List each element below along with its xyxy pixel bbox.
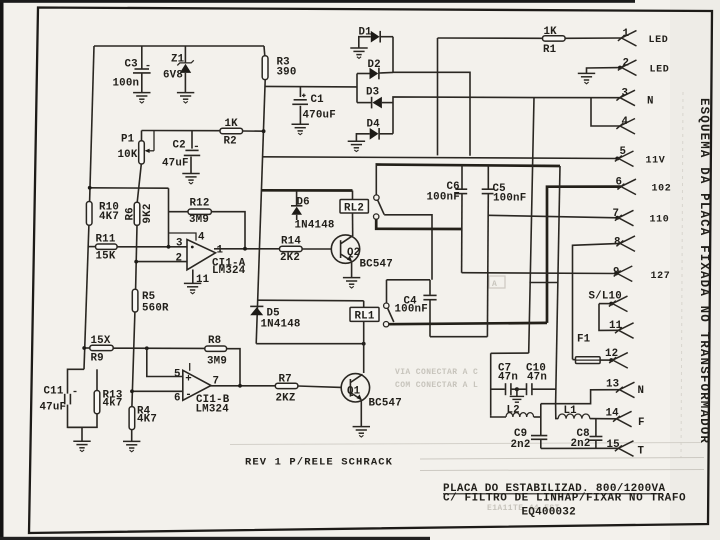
node R2/rail junction [262, 129, 266, 133]
node pin3 junction [167, 245, 171, 249]
svg-text:11: 11 [609, 320, 623, 332]
diode D2 [357, 73, 370, 75]
wire C4 top row [387, 279, 431, 281]
wire R12 left branch [168, 188, 170, 247]
svg-text:11: 11 [196, 274, 210, 286]
svg-text:C1: C1 [311, 94, 325, 106]
svg-text:LM324: LM324 [212, 265, 246, 277]
svg-text:LED: LED [649, 35, 669, 46]
wire C5 bottom jog [430, 336, 487, 338]
capacitor C10 [517, 388, 526, 390]
svg-text:D4: D4 [367, 119, 381, 131]
wire top rail [94, 45, 264, 47]
svg-text:-: - [185, 389, 192, 401]
svg-text:7: 7 [613, 208, 620, 220]
wire P1 node to R12 branch [90, 187, 169, 189]
ground (C1) [292, 124, 309, 134]
connector pin 5 [615, 151, 634, 167]
svg-text:+: + [185, 374, 192, 386]
wire pin6 102 drop [547, 187, 621, 323]
svg-text:3M9: 3M9 [189, 214, 209, 226]
node R4/pin6 junction [130, 389, 134, 393]
svg-text:N: N [638, 385, 645, 397]
wire RL2 armature row [384, 215, 432, 280]
wire R1 to 11V rail [437, 38, 439, 155]
node R8 feedback junction [238, 384, 242, 388]
svg-text:3: 3 [176, 238, 183, 250]
resistor R1 [438, 37, 543, 39]
wire 127 row (pin 9) [462, 272, 617, 275]
connector pin 2 [587, 68, 621, 74]
wire D2 left drop [356, 74, 358, 103]
svg-text:P1: P1 [121, 134, 135, 146]
svg-text:Q1: Q1 [347, 386, 361, 398]
wire 11V row (pin 5) [262, 157, 617, 159]
svg-text:BC547: BC547 [369, 398, 402, 410]
ground (C2) [182, 174, 199, 184]
node feedback junction [243, 247, 247, 251]
ground (D1) [350, 48, 367, 58]
capacitor C7 [491, 388, 505, 390]
svg-text:1: 1 [217, 245, 224, 257]
svg-text:C11: C11 [44, 386, 64, 398]
capacitor C2 [191, 131, 193, 149]
svg-text:R2: R2 [224, 136, 237, 148]
connector pin 15 [615, 441, 634, 457]
svg-text:ESQUEMA DA PLACA FIXADA NO TRA: ESQUEMA DA PLACA FIXADA NO TRANSFORMADOR [697, 98, 711, 444]
svg-text:L2: L2 [507, 405, 520, 417]
svg-text:1: 1 [623, 28, 630, 40]
svg-text:REV 1 P/RELE SCHRACK: REV 1 P/RELE SCHRACK [245, 457, 393, 469]
ground (pin2) [578, 73, 595, 83]
inductor L2 [491, 415, 506, 417]
svg-text:R6: R6 [125, 207, 137, 220]
wire left rail [90, 46, 94, 202]
wire opamp A output [214, 248, 280, 250]
resistor R12 [169, 211, 189, 213]
svg-text:R7: R7 [279, 374, 292, 386]
zener Z1 [184, 46, 186, 63]
svg-text:F: F [638, 417, 645, 429]
svg-text:470uF: 470uF [303, 110, 336, 122]
wire pin3 N row [534, 97, 620, 99]
wire R2 row [142, 130, 221, 132]
svg-text:C/ FILTRO DE LINHAP/FIXAR NO T: C/ FILTRO DE LINHAP/FIXAR NO TRAFO [443, 493, 686, 505]
svg-text:4K7: 4K7 [99, 211, 119, 223]
relay contact RL2 [374, 195, 379, 200]
relay coil RL1 [363, 301, 365, 308]
svg-text:1N4148: 1N4148 [295, 220, 335, 232]
resistor R13 [96, 369, 98, 390]
wire pin13 N row [541, 390, 620, 404]
capacitor C3 [141, 46, 143, 69]
svg-text:4: 4 [198, 232, 205, 244]
svg-text:100nF: 100nF [427, 192, 460, 204]
svg-text:47n: 47n [527, 372, 547, 384]
svg-text:EQ400032: EQ400032 [522, 507, 576, 519]
svg-text:1N4148: 1N4148 [261, 319, 301, 331]
svg-text:100n: 100n [113, 78, 140, 90]
wire opamp B output [210, 385, 276, 387]
svg-text:6V8: 6V8 [163, 70, 183, 82]
ground (Z1) [177, 93, 194, 103]
wire pin7 110 row [488, 215, 618, 218]
svg-text:Z1: Z1 [171, 54, 185, 66]
ground (Q1) [353, 427, 370, 437]
wire T row (pin 15) [541, 447, 619, 449]
wire pin2 input [136, 261, 187, 263]
svg-text:15: 15 [607, 439, 620, 451]
svg-text:127: 127 [651, 271, 671, 282]
ground (R4) [123, 441, 140, 451]
svg-text:D3: D3 [366, 87, 379, 99]
diode D5 1N4148 [250, 305, 263, 307]
resistor R8 [205, 346, 227, 351]
ground (C3) [133, 93, 150, 103]
wire D3/D4 node [393, 97, 534, 134]
op-amp U1B CI1-B LM324 [183, 370, 211, 400]
scan black edge top [0, 0, 635, 3]
svg-text:C3: C3 [125, 59, 138, 71]
connector pin 6 [617, 179, 636, 195]
svg-text:12: 12 [605, 348, 618, 360]
wire pin6 input [132, 390, 183, 392]
resistor R6 [134, 202, 140, 225]
wire D5/RL1 bottom row [256, 343, 364, 345]
capacitor C6 [461, 165, 463, 188]
svg-text:390: 390 [277, 67, 297, 79]
faint column divider line [681, 92, 683, 458]
connector pin 1 [618, 31, 637, 47]
wire box top heavy [376, 165, 561, 167]
svg-text:R14: R14 [281, 236, 301, 248]
svg-text:R8: R8 [208, 335, 221, 347]
svg-text:VIA CONECTAR A C: VIA CONECTAR A C [395, 368, 478, 377]
wire main rail [256, 80, 265, 344]
wire RL1 coil to Q1 collector [363, 344, 365, 373]
svg-text:47uF: 47uF [40, 402, 67, 414]
node pin5 branch junction [145, 346, 149, 350]
connector pin 12 [609, 353, 628, 369]
capacitor C8 [595, 419, 597, 436]
connector pin 13 [616, 382, 635, 398]
diode D1 [359, 37, 371, 48]
svg-text:RL1: RL1 [355, 311, 375, 323]
wire branch to pin5 [147, 348, 183, 376]
ground (C7/C10) [510, 396, 524, 402]
svg-text:100nF: 100nF [395, 304, 428, 316]
wire N to L2 feed [491, 352, 529, 354]
connector pin 4 [616, 119, 635, 135]
resistor R7 [275, 383, 298, 388]
wire RL2 common drop [375, 165, 377, 195]
svg-text:R1: R1 [543, 44, 557, 56]
svg-text:100nF: 100nF [493, 193, 526, 205]
wire C1/D3 feed [265, 85, 357, 88]
node left-rail junction [88, 186, 92, 190]
potentiometer P1 [141, 131, 143, 141]
svg-text:3: 3 [622, 88, 629, 100]
svg-text:Q2: Q2 [347, 247, 360, 259]
ground (D4) [348, 141, 365, 151]
capacitor C1 [299, 87, 301, 98]
wire bridge segment [529, 282, 558, 284]
resistor R3 [263, 46, 266, 56]
wire pin4 drop [591, 98, 620, 126]
transistor Q2 BC547 [331, 235, 359, 263]
capacitor C4 [429, 280, 431, 295]
svg-text:N: N [647, 96, 654, 108]
relay coil RL2 [352, 191, 354, 200]
resistor R11 [88, 246, 96, 248]
svg-text:10K: 10K [118, 149, 138, 161]
connector pin 11 [615, 323, 634, 339]
faint title-block ruling lines [230, 443, 702, 445]
ground (U1A pin11) [184, 283, 201, 293]
wire pin8 drop to fuse [573, 243, 621, 359]
svg-text:2: 2 [176, 253, 183, 265]
svg-text:R5: R5 [142, 291, 155, 303]
svg-text:2K2: 2K2 [280, 252, 300, 264]
svg-text:1K: 1K [225, 118, 239, 130]
svg-text:F1: F1 [577, 334, 591, 346]
resistor R10 [86, 202, 92, 226]
svg-text:4K7: 4K7 [137, 414, 157, 426]
node RL1 coil bottom junction [362, 342, 366, 346]
wire D1 cathode drop [392, 37, 394, 73]
ground (C11) [73, 441, 90, 451]
svg-text:A: A [492, 280, 497, 289]
wire box-top right drop [556, 166, 560, 404]
svg-text:6: 6 [616, 177, 623, 189]
wire D1/D2 node to V rail [393, 72, 470, 156]
svg-text:110: 110 [650, 215, 670, 226]
diode D4 [356, 134, 369, 141]
wire 102 row to RL1 [389, 323, 547, 324]
svg-text:8: 8 [614, 237, 621, 249]
svg-text:2KZ: 2KZ [276, 393, 296, 405]
svg-text:13: 13 [606, 379, 619, 391]
diode D6 1N4148 [296, 191, 298, 206]
svg-text:BC547: BC547 [360, 259, 393, 271]
resistor R2 [220, 128, 243, 134]
svg-text:9K2: 9K2 [142, 203, 154, 223]
resistor R14 [280, 246, 303, 251]
diode D3 [357, 102, 371, 104]
node C7/C10 mid junction [515, 387, 519, 391]
svg-text:14: 14 [606, 408, 620, 420]
pin 11 stub [192, 270, 194, 284]
scan black edge left [0, 0, 4, 540]
svg-text:COM CONECTAR A L: COM CONECTAR A L [395, 381, 478, 390]
capacitor C11 box [68, 369, 85, 393]
connector pin 9 [614, 266, 633, 282]
ground (Q2) [343, 278, 360, 288]
svg-text:C2: C2 [173, 140, 186, 152]
resistor R4 [129, 407, 135, 430]
svg-text:T: T [638, 446, 645, 458]
svg-text:15X: 15X [91, 335, 111, 347]
svg-text:2: 2 [623, 58, 630, 70]
svg-text:1K: 1K [544, 26, 558, 38]
svg-text:R11: R11 [96, 234, 116, 246]
svg-text:2n2: 2n2 [511, 439, 531, 451]
wire S/L10 bracket [599, 304, 619, 331]
svg-text:LM324: LM324 [196, 404, 230, 416]
svg-text:D1: D1 [359, 27, 373, 39]
capacitor C9 [540, 404, 542, 435]
wire D5/RL1 top row [258, 299, 364, 302]
svg-text:4k7: 4k7 [103, 398, 123, 410]
svg-text:560R: 560R [142, 303, 169, 315]
node R6/pin2 junction [134, 260, 138, 264]
wire N drop (mains neutral) [529, 98, 534, 354]
wire RL2 NC contact row [376, 219, 461, 229]
inductor L1 [556, 404, 559, 419]
svg-text:R9: R9 [91, 353, 104, 365]
svg-text:6: 6 [174, 393, 181, 405]
capacitor C5 [487, 166, 489, 189]
wire heavy supply row to RL2 [261, 189, 352, 192]
svg-text:D6: D6 [297, 197, 310, 209]
svg-text:15K: 15K [96, 251, 116, 263]
connector pin 14 [613, 411, 632, 427]
connector pin 3 [616, 90, 635, 106]
svg-text:RL2: RL2 [344, 203, 364, 215]
svg-text:R12: R12 [190, 198, 210, 210]
scan black edge bottom [0, 537, 430, 540]
op-amp U1A CI1-A LM324 [187, 240, 216, 270]
svg-text:47uF: 47uF [162, 158, 189, 170]
svg-text:D2: D2 [368, 59, 381, 71]
svg-text:102: 102 [652, 184, 672, 195]
connector pin 8 [616, 236, 635, 252]
node R9 left rail junction [82, 346, 86, 350]
resistor R5 [132, 289, 138, 312]
connector pin 10 [599, 303, 612, 305]
connector pin 7 [615, 210, 634, 226]
resistor R9 [84, 347, 90, 349]
svg-text:3M9: 3M9 [207, 356, 227, 368]
svg-text:47n: 47n [498, 372, 518, 384]
svg-text:11V: 11V [646, 156, 666, 167]
relay contact RL1 [384, 303, 389, 308]
svg-text:5: 5 [620, 146, 627, 158]
svg-text:9: 9 [613, 267, 620, 279]
transistor Q1 BC547 [341, 374, 369, 402]
svg-text:L1: L1 [564, 405, 578, 417]
svg-text:5: 5 [174, 369, 181, 381]
svg-text:4: 4 [622, 116, 629, 128]
pin 4 stub [169, 233, 197, 241]
svg-text:LED: LED [650, 65, 670, 76]
